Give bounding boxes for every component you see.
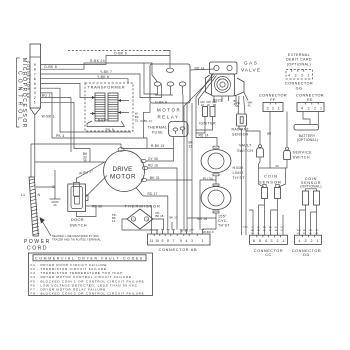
- svg-text:BR: BR: [267, 132, 272, 136]
- svg-text:5: 5: [180, 239, 182, 243]
- svg-text:BK 31: BK 31: [150, 176, 160, 180]
- svg-text:31: 31: [189, 144, 193, 148]
- svg-text:64: 64: [276, 164, 280, 168]
- svg-text:CYC.: CYC.: [218, 219, 228, 223]
- svg-text:4: 4: [288, 74, 290, 78]
- svg-text:R-BK 15: R-BK 15: [151, 144, 164, 148]
- svg-text:50: 50: [309, 233, 312, 235]
- wire W-BU 37 diagonal: [77, 162, 108, 198]
- svg-text:CONNECTOR AB: CONNECTOR AB: [159, 248, 198, 252]
- svg-text:BK: BK: [303, 230, 306, 232]
- svg-text:1: 1: [278, 107, 280, 111]
- svg-text:7: 7: [34, 72, 36, 76]
- svg-text:CONNECTOR AA: CONNECTOR AA: [26, 61, 30, 99]
- svg-text:THERMAL: THERMAL: [148, 126, 168, 130]
- svg-text:DD: DD: [303, 253, 310, 257]
- svg-text:SWITCH: SWITCH: [237, 149, 253, 153]
- svg-text:1: 1: [202, 239, 204, 243]
- wire PK 5 feed: [41, 88, 61, 132]
- svg-text:(OPTIONAL): (OPTIONAL): [297, 138, 318, 142]
- service switch: [284, 112, 313, 169]
- svg-text:WH: WH: [297, 230, 301, 232]
- svg-text:PK 5: PK 5: [106, 128, 115, 132]
- wire gas valve diagonals: [184, 74, 217, 230]
- connector GG: [285, 70, 313, 91]
- svg-text:O-BK 9: O-BK 9: [114, 52, 127, 56]
- svg-text:CC: CC: [265, 253, 272, 257]
- svg-text:1: 1: [34, 101, 36, 105]
- svg-text:HIGH: HIGH: [233, 166, 244, 170]
- battery: [294, 112, 319, 143]
- svg-text:BU 1: BU 1: [42, 94, 51, 98]
- wire fuse top to relay: [182, 95, 184, 122]
- svg-text:W-BK 1: W-BK 1: [42, 115, 55, 119]
- wire high limit to AB: [200, 176, 216, 230]
- svg-text:LIMIT: LIMIT: [233, 171, 245, 175]
- svg-text:7: 7: [173, 239, 175, 243]
- svg-text:BATTERY: BATTERY: [299, 134, 316, 138]
- svg-text:BK: BK: [257, 230, 260, 232]
- svg-text:TRACER AND TIN PLATED TERMINAL: TRACER AND TIN PLATED TERMINAL: [52, 237, 101, 241]
- thermistor: [112, 204, 164, 230]
- svg-text:W-: W-: [257, 227, 260, 229]
- svg-text:RD 14: RD 14: [195, 66, 205, 70]
- wire PK 4 feed: [41, 93, 53, 138]
- svg-text:6: 6: [253, 239, 255, 243]
- wire BK 31 motor: [147, 176, 193, 180]
- svg-text:(OPTIONAL): (OPTIONAL): [300, 184, 321, 188]
- svg-text:5: 5: [259, 239, 261, 243]
- svg-text:W-BU 37: W-BU 37: [79, 170, 94, 176]
- svg-text:8: 8: [167, 239, 169, 243]
- svg-text:DRIVE: DRIVE: [113, 166, 133, 173]
- svg-text:CORD: CORD: [27, 246, 48, 252]
- power cord: [21, 144, 51, 252]
- wire PK 5: [60, 128, 131, 132]
- wire Y-BK 6: [41, 75, 129, 83]
- radiant sensor: [232, 96, 250, 137]
- svg-text:(OPTIONAL): (OPTIONAL): [287, 62, 312, 66]
- connector CC: [250, 235, 288, 257]
- svg-text:EXTERNAL: EXTERNAL: [288, 53, 310, 57]
- svg-text:PU 34: PU 34: [203, 177, 213, 181]
- svg-text:9: 9: [34, 63, 36, 67]
- svg-text:2: 2: [311, 239, 313, 243]
- svg-text:41: 41: [248, 104, 252, 108]
- svg-text:SENSOR: SENSOR: [259, 180, 282, 185]
- wire 155 thst to AB BK 18: [187, 213, 216, 229]
- wire pin8: [41, 101, 75, 103]
- svg-text:Y-BK 7: Y-BK 7: [100, 70, 112, 74]
- svg-text:RD: RD: [309, 230, 313, 232]
- drive motor: [104, 148, 148, 192]
- wire W-BK 1: [35, 115, 55, 163]
- svg-text:PK 4: PK 4: [56, 134, 65, 138]
- gas valve: [206, 61, 262, 104]
- connector AA: [26, 44, 40, 115]
- svg-text:W-BU 5: W-BU 5: [181, 229, 191, 233]
- wire motor top: [120, 144, 122, 148]
- svg-text:GY: GY: [281, 227, 285, 229]
- svg-text:EE: EE: [307, 98, 313, 102]
- svg-text:SWITCH: SWITCH: [293, 156, 311, 160]
- svg-text:FF: FF: [270, 98, 276, 102]
- high limit thermostat: [201, 146, 245, 181]
- transformer pins: [87, 96, 129, 115]
- svg-text:BK: BK: [263, 227, 266, 229]
- transformer T1 windings: [87, 93, 125, 127]
- svg-text:RELAY: RELAY: [158, 115, 180, 120]
- svg-text:4: 4: [34, 87, 36, 91]
- connector FF: [259, 94, 287, 112]
- svg-text:9: 9: [162, 239, 164, 243]
- svg-text:GAS: GAS: [244, 61, 259, 66]
- svg-text:MOTOR: MOTOR: [157, 108, 181, 113]
- connector EE: [296, 94, 324, 112]
- svg-text:CONNECTOR: CONNECTOR: [285, 82, 313, 86]
- svg-text:R-BK 13: R-BK 13: [141, 119, 153, 123]
- wire RD 16: [148, 164, 178, 230]
- svg-text:N: N: [38, 193, 41, 197]
- svg-text:Y-: Y-: [251, 227, 253, 229]
- svg-text:R-BK 24: R-BK 24: [90, 59, 105, 63]
- vault switch: [237, 144, 263, 157]
- svg-text:1: 1: [320, 107, 322, 111]
- svg-text:1: 1: [283, 239, 285, 243]
- wire L1 run: [31, 143, 121, 145]
- wire RD 14 to high limit: [196, 133, 217, 146]
- wire relay down BK 31: [189, 103, 194, 230]
- svg-text:MOTOR: MOTOR: [110, 174, 136, 181]
- cycling thermostat 155: [201, 184, 231, 228]
- svg-text:BK: BK: [251, 230, 254, 232]
- svg-text:GY: GY: [315, 230, 319, 232]
- svg-text:5: 5: [34, 82, 36, 86]
- svg-text:RD: RD: [269, 227, 273, 229]
- svg-text:VAULT: VAULT: [239, 144, 252, 148]
- cc pin labels: [251, 227, 284, 235]
- svg-text:2: 2: [301, 74, 303, 78]
- thermistor wires: [122, 219, 172, 234]
- svg-text:RD 17: RD 17: [148, 192, 158, 196]
- svg-text:TH'ST: TH'ST: [233, 176, 246, 180]
- svg-text:11: 11: [150, 239, 154, 243]
- svg-text:49: 49: [269, 230, 272, 232]
- svg-text:35: 35: [83, 159, 87, 163]
- svg-text:CONNECTOR: CONNECTOR: [296, 94, 324, 98]
- wire O-BK 9: [41, 52, 171, 65]
- svg-text:4: 4: [186, 239, 188, 243]
- wire BK 33 bundle: [71, 98, 90, 164]
- svg-text:3: 3: [271, 239, 273, 243]
- gas valve wing stubs: [236, 93, 248, 101]
- svg-text:O-BK 8: O-BK 8: [44, 65, 57, 69]
- svg-text:BK 13: BK 13: [170, 216, 178, 220]
- svg-text:3: 3: [191, 239, 193, 243]
- svg-text:3: 3: [34, 91, 36, 95]
- svg-text:Y-BK 6: Y-BK 6: [97, 75, 109, 79]
- wire door switch top: [76, 178, 78, 183]
- wire dashed top optional: [68, 51, 170, 69]
- thermal fuse: [148, 122, 189, 137]
- wire R-BK 15: [121, 144, 173, 148]
- svg-text:TRANSFORMER: TRANSFORMER: [88, 85, 126, 90]
- svg-text:FUSE: FUSE: [152, 130, 163, 134]
- svg-text:F8 - BLOCKED COIN 2 OR CONTROL: F8 - BLOCKED COIN 2 OR CONTROL CIRCUIT F…: [31, 292, 145, 296]
- coin sensor optional: [300, 177, 322, 235]
- gas valve lead labels: [201, 99, 253, 108]
- svg-text:DOOR: DOOR: [71, 218, 84, 222]
- door switch: [68, 183, 96, 228]
- svg-text:50: 50: [263, 230, 266, 232]
- svg-text:49: 49: [315, 233, 318, 235]
- neutral note: [40, 217, 102, 241]
- wire BU 1: [41, 94, 72, 98]
- svg-text:8: 8: [34, 68, 36, 72]
- label MICROPROCESSOR CONTROL: [17, 58, 28, 129]
- svg-text:6: 6: [34, 77, 36, 81]
- transformer dashed box: [85, 83, 133, 131]
- svg-text:3: 3: [305, 239, 307, 243]
- connector AA pin numbers: [34, 63, 36, 105]
- wire fuse bottom to motor GY 35: [146, 137, 173, 162]
- svg-text:RD 16: RD 16: [148, 164, 158, 168]
- wire RD 17: [136, 188, 168, 230]
- svg-text:O-BK 8: O-BK 8: [155, 101, 167, 105]
- wire to transformer pin: [41, 83, 88, 97]
- wire Y-BK 7 U-loop: [41, 70, 162, 98]
- label 6-BU: [243, 227, 248, 229]
- connector AB: [148, 216, 210, 252]
- svg-text:CONTROL: CONTROL: [17, 71, 23, 124]
- svg-text:2: 2: [314, 107, 316, 111]
- wire R-BK 24: [41, 59, 158, 94]
- wire relay to gas valve RD 14: [190, 66, 214, 70]
- svg-text:SWITCH: SWITCH: [70, 224, 87, 228]
- svg-text:6-BU: 6-BU: [243, 227, 248, 229]
- wire PK 4: [52, 134, 147, 149]
- svg-text:IGNITER: IGNITER: [199, 122, 216, 126]
- svg-text:3: 3: [295, 74, 297, 78]
- coin sensor wires to CC: [249, 199, 283, 236]
- wire neutral to motor: [35, 161, 104, 163]
- svg-text:COIN: COIN: [264, 174, 278, 179]
- external debit card label: [286, 53, 312, 66]
- svg-text:COMMERCIAL DRYER FAULT CODES: COMMERCIAL DRYER FAULT CODES: [35, 257, 144, 261]
- svg-text:2: 2: [277, 239, 279, 243]
- svg-text:VALVE: VALVE: [241, 68, 261, 73]
- microprocessor control bracket: [17, 58, 20, 127]
- label W-BU 9: [203, 230, 214, 234]
- svg-text:2: 2: [34, 96, 36, 100]
- motor relay: [150, 64, 190, 120]
- svg-text:3: 3: [267, 107, 269, 111]
- svg-text:DEBIT CARD: DEBIT CARD: [286, 58, 312, 62]
- connector DD: [292, 235, 322, 257]
- svg-text:2: 2: [272, 107, 274, 111]
- svg-text:RD 36: RD 36: [92, 205, 102, 209]
- svg-text:1: 1: [308, 74, 310, 78]
- svg-text:10: 10: [155, 239, 159, 243]
- label W-BK 33: [135, 112, 139, 123]
- svg-text:4: 4: [301, 107, 303, 111]
- svg-text:1: 1: [317, 239, 319, 243]
- svg-text:19: 19: [112, 219, 116, 223]
- ground: [36, 170, 61, 205]
- svg-text:L1: L1: [21, 193, 25, 197]
- dd pin labels: [297, 230, 319, 235]
- svg-text:3: 3: [308, 107, 310, 111]
- svg-text:POWER: POWER: [24, 239, 51, 245]
- svg-text:5A: 5A: [235, 104, 239, 108]
- svg-text:4: 4: [265, 239, 267, 243]
- svg-text:SERVICE: SERVICE: [293, 151, 313, 155]
- igniter: [196, 107, 216, 134]
- svg-text:51: 51: [257, 233, 260, 235]
- svg-text:BK 18: BK 18: [198, 217, 208, 221]
- svg-text:BK 18: BK 18: [156, 214, 164, 218]
- svg-text:G: G: [52, 185, 55, 189]
- svg-text:CONNECTOR: CONNECTOR: [259, 94, 287, 98]
- coin sensor: [259, 112, 288, 199]
- svg-text:4: 4: [299, 239, 301, 243]
- svg-text:BU: BU: [275, 227, 278, 229]
- svg-text:155°: 155°: [218, 215, 227, 219]
- wire radiant sensor to vault switch: [239, 126, 260, 235]
- svg-text:RD 14: RD 14: [199, 133, 209, 137]
- fault code table: [29, 253, 153, 296]
- wire door switch RD 36: [86, 205, 152, 230]
- svg-text:GY 35: GY 35: [148, 157, 158, 161]
- svg-text:TH'ST: TH'ST: [218, 224, 230, 228]
- svg-text:GG: GG: [296, 87, 303, 91]
- svg-text:52: 52: [251, 233, 254, 235]
- svg-text:BASE: BASE: [98, 119, 109, 123]
- wire relay bottom to AB bus: [186, 103, 188, 230]
- svg-text:33: 33: [135, 119, 139, 123]
- wire relay left drop: [141, 103, 153, 138]
- svg-text:W-BU 9: W-BU 9: [203, 230, 214, 234]
